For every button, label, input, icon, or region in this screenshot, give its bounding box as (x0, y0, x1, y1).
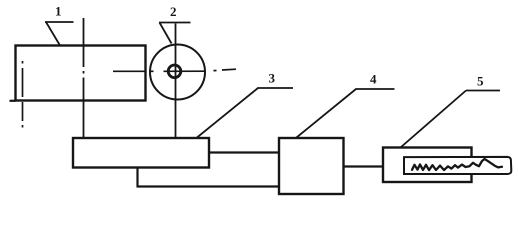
wire box4 to box5 (344, 165, 384, 167)
hub circle (small) (168, 65, 181, 78)
box 1 (exciter housing) (16, 46, 146, 101)
leader line label 2 (159, 23, 191, 44)
leader line label 4 (297, 89, 395, 138)
vertical centerline through wheel (x=175.5 down to box 3) (175, 24, 177, 138)
crack squiggle inside specimen (412, 159, 502, 170)
leader line label 1 (45, 22, 74, 46)
centerline vertical left (dash-dot at x=22.5) (22, 61, 24, 128)
svg-text:1: 1 (55, 4, 62, 19)
centerline vertical mid (x=83.5 through box 1 down to box 3) (83, 18, 85, 138)
wire box3 bottom step to box4 (137, 168, 280, 187)
specimen bar (inner rectangle, overlaps holder) (404, 157, 511, 174)
svg-text:2: 2 (170, 4, 177, 19)
wheel circle (big) (150, 45, 205, 100)
leader line label 5 (401, 91, 501, 148)
svg-text:3: 3 (269, 71, 276, 86)
svg-text:5: 5 (477, 74, 484, 89)
box 1 bottom-left overshoot tick (10, 100, 16, 102)
leader line label 3 (197, 88, 293, 138)
wire box3 to box4 (209, 151, 279, 153)
box 5 (pickup holder) (383, 148, 472, 183)
horizontal centerline through wheel (113, 69, 236, 71)
box 3 (amplifier, long rectangle) (73, 138, 209, 168)
svg-text:4: 4 (370, 72, 377, 87)
box 4 (oscillograph, square) (279, 138, 344, 194)
